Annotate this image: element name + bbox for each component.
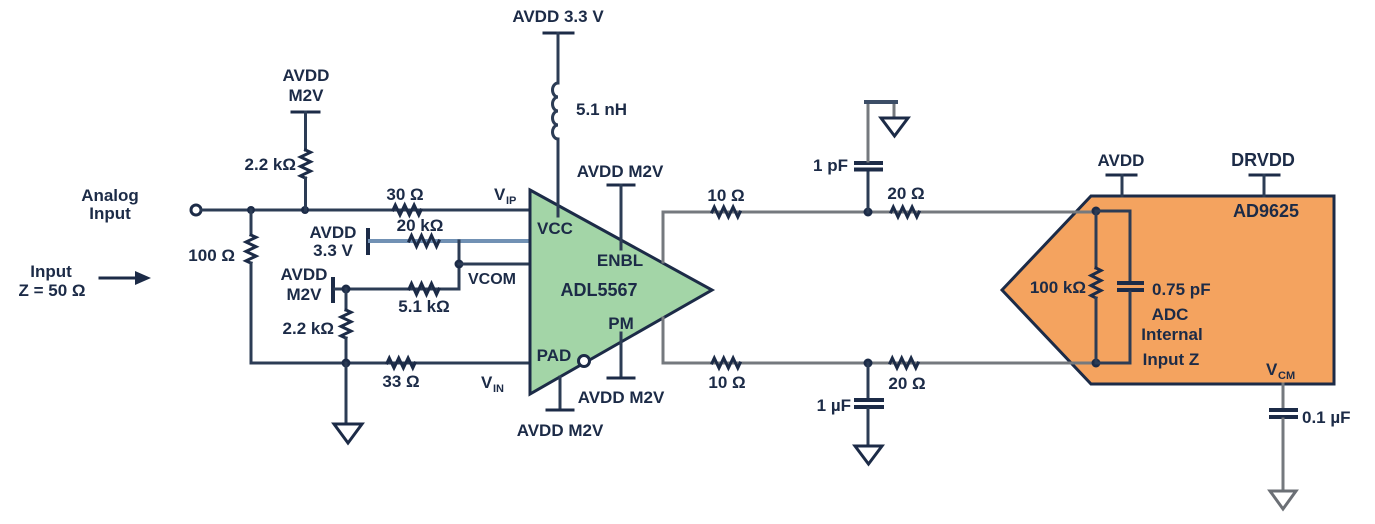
node M2V junction — [342, 285, 351, 294]
svg-text:1 pF: 1 pF — [813, 156, 848, 175]
svg-text:AVDD M2V: AVDD M2V — [517, 421, 604, 440]
wire bottom into adc — [1058, 362, 1096, 365]
wire VCOM to amp — [459, 263, 530, 266]
resistor 5.1 kOhm — [398, 284, 449, 317]
pin PAD circle — [579, 356, 590, 367]
wire cap to ground flag — [868, 102, 894, 161]
svg-text:IP: IP — [506, 195, 516, 207]
SECTION: left input network — [18, 66, 530, 443]
wire to ground — [345, 363, 348, 424]
svg-text:2.2 kΩ: 2.2 kΩ — [245, 155, 296, 174]
SECTION: amplifier — [512, 7, 712, 440]
node input junction — [247, 206, 255, 214]
wire amp top output — [663, 212, 1096, 262]
svg-text:20 Ω: 20 Ω — [887, 184, 924, 203]
svg-text:AD9625: AD9625 — [1233, 201, 1299, 221]
node adc top junction — [1092, 207, 1101, 216]
input arrow — [100, 271, 151, 285]
svg-text:Analog: Analog — [81, 186, 139, 205]
ground (top) — [881, 118, 908, 136]
svg-text:V: V — [481, 373, 493, 392]
label VIN — [481, 373, 504, 395]
resistor 30 Ohm — [386, 185, 423, 215]
svg-text:AVDD 3.3 V: AVDD 3.3 V — [512, 7, 604, 26]
svg-text:DRVDD: DRVDD — [1231, 150, 1295, 170]
svg-text:Z = 50 Ω: Z = 50 Ω — [18, 281, 85, 300]
svg-text:VCC: VCC — [537, 219, 573, 238]
resistor 20 Ohm (top) — [887, 184, 924, 217]
svg-text:AVDD: AVDD — [1098, 151, 1145, 170]
svg-text:AVDD M2V: AVDD M2V — [577, 162, 664, 181]
capacitor 1 pF — [813, 156, 881, 212]
wire top into adc — [1058, 211, 1096, 214]
ground (bottom right) — [1270, 491, 1296, 509]
label VIP — [494, 185, 516, 207]
power AVDD 3.3 V (mid) — [310, 223, 368, 260]
svg-text:M2V: M2V — [289, 86, 325, 105]
capacitor 1 uF — [817, 363, 882, 446]
svg-text:Input: Input — [30, 262, 72, 281]
svg-text:VCOM: VCOM — [468, 271, 516, 288]
wire input to VIP — [201, 209, 530, 212]
power AVDD M2V (top-left) — [283, 66, 330, 150]
ground (left) — [334, 424, 362, 443]
inductor 5.1 nH — [553, 83, 628, 139]
power AVDD M2V (PAD) — [517, 377, 604, 440]
svg-text:ADC: ADC — [1152, 305, 1189, 324]
input terminal circle — [191, 205, 201, 215]
wire amp bottom output — [663, 318, 1096, 363]
resistor 20 kOhm — [397, 216, 444, 247]
node adc bottom junction — [1092, 359, 1101, 368]
ground (bottom middle) — [855, 446, 882, 464]
power AVDD M2V (mid-left) — [281, 265, 333, 304]
svg-text:ENBL: ENBL — [597, 251, 643, 270]
wire VCC bias (blue) — [370, 239, 530, 243]
wire inductor to VCC — [557, 139, 560, 216]
resistor 2.2 kOhm (lower) — [283, 289, 351, 363]
node junction 2.2k top — [301, 206, 309, 214]
svg-text:AVDD: AVDD — [310, 223, 357, 242]
power AVDD 3.3 V (top) — [512, 7, 604, 83]
svg-text:33 Ω: 33 Ω — [382, 372, 419, 391]
svg-text:V: V — [1266, 360, 1278, 379]
node bottom cap junction — [864, 359, 873, 368]
wire bottom VIN — [251, 362, 530, 365]
svg-text:0.1 µF: 0.1 µF — [1302, 408, 1351, 427]
svg-text:3.3 V: 3.3 V — [313, 241, 353, 260]
resistor 10 Ohm (top) — [707, 186, 744, 217]
resistor 100 Ohm (vertical) — [188, 210, 256, 363]
svg-text:IN: IN — [493, 383, 504, 395]
resistor 33 Ohm — [382, 358, 419, 391]
wire AVDD M2V to 5.1k — [335, 288, 459, 291]
svg-text:AVDD: AVDD — [281, 265, 328, 284]
svg-text:100 kΩ: 100 kΩ — [1030, 278, 1086, 297]
node bottom junction — [342, 359, 351, 368]
resistor 20 Ohm (bottom) — [888, 358, 925, 393]
svg-text:M2V: M2V — [287, 285, 323, 304]
power AVDD M2V (ENBL) — [577, 162, 664, 249]
svg-text:20 Ω: 20 Ω — [888, 374, 925, 393]
svg-text:PM: PM — [608, 314, 634, 333]
svg-text:Input: Input — [89, 204, 131, 223]
svg-text:ADL5567: ADL5567 — [560, 280, 637, 300]
resistor 100 kOhm (internal) — [1030, 211, 1101, 363]
svg-text:Input Z: Input Z — [1143, 350, 1200, 369]
power AVDD M2V (PM) — [578, 333, 665, 407]
capacitor 0.1 uF — [1271, 384, 1351, 491]
svg-text:0.75 pF: 0.75 pF — [1152, 280, 1211, 299]
svg-text:2.2 kΩ: 2.2 kΩ — [283, 319, 334, 338]
svg-text:10 Ω: 10 Ω — [708, 373, 745, 392]
SECTION: output network — [663, 102, 1096, 464]
svg-text:5.1 kΩ: 5.1 kΩ — [398, 297, 449, 316]
svg-text:30 Ω: 30 Ω — [386, 185, 423, 204]
node VCOM junction — [455, 260, 464, 269]
op-amp U1 ADL5567 — [530, 190, 712, 394]
svg-text:1 µF: 1 µF — [817, 396, 851, 415]
svg-text:AVDD M2V: AVDD M2V — [578, 388, 665, 407]
adc U2 AD9625 body — [1002, 196, 1334, 384]
svg-text:100 Ω: 100 Ω — [188, 246, 235, 265]
svg-text:CM: CM — [1278, 370, 1295, 382]
svg-text:10 Ω: 10 Ω — [707, 186, 744, 205]
power AVDD (adc) — [1098, 151, 1145, 196]
node top cap junction — [864, 208, 873, 217]
SECTION: adc — [1002, 150, 1351, 509]
pin label VCM — [1266, 360, 1295, 382]
svg-text:Internal: Internal — [1141, 325, 1202, 344]
svg-text:5.1 nH: 5.1 nH — [576, 100, 627, 119]
capacitor 0.75 pF (internal) — [1096, 211, 1211, 363]
wire vcom tie — [458, 241, 461, 289]
svg-text:20 kΩ: 20 kΩ — [397, 216, 444, 235]
svg-text:AVDD: AVDD — [283, 66, 330, 85]
power DRVDD (adc) — [1231, 150, 1295, 196]
resistor 10 Ohm (bottom) — [708, 358, 745, 392]
svg-text:V: V — [494, 185, 506, 204]
resistor 2.2 kOhm (top) — [245, 150, 311, 210]
ground flag bar — [866, 100, 896, 104]
svg-text:PAD: PAD — [537, 346, 572, 365]
label ADC Internal Input Z — [1141, 305, 1202, 369]
